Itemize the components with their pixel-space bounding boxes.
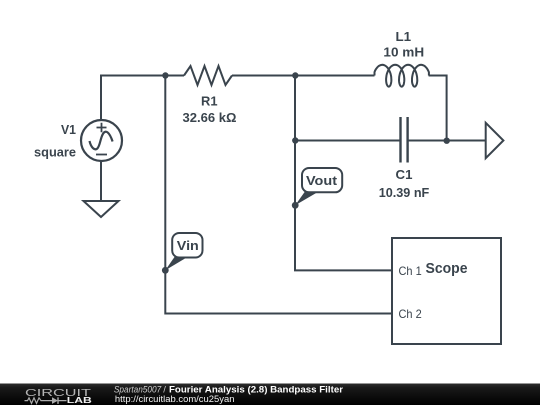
V1 sine wave <box>90 132 113 150</box>
node junction at C1 left <box>292 137 298 143</box>
scope box <box>392 238 501 344</box>
svg-text:Scope: Scope <box>426 260 468 277</box>
svg-text:10 mH: 10 mH <box>383 45 424 60</box>
svg-text:LAB: LAB <box>67 396 92 405</box>
wire C1 left lead <box>295 140 400 142</box>
svg-text:Ch 2: Ch 2 <box>399 307 422 321</box>
node junction at Vout branch top <box>292 72 298 78</box>
svg-text:Vout: Vout <box>306 173 338 188</box>
wire L1 to corner down to C1 right node <box>429 76 447 141</box>
flag Vout box <box>302 168 342 192</box>
svg-text:http://circuitlab.com/cu25yan: http://circuitlab.com/cu25yan <box>115 394 235 405</box>
wire Vin vertical and Ch2 horizontal <box>165 76 392 314</box>
ground <box>84 201 119 217</box>
node Vout attachment dot <box>292 202 299 209</box>
logo resistor-diode glyph <box>25 398 67 404</box>
flag Vout pointer <box>295 191 320 206</box>
svg-text:Ch 1: Ch 1 <box>399 264 422 278</box>
voltage source V1 <box>81 120 122 161</box>
svg-text:R1: R1 <box>201 94 218 109</box>
wire V1 top to R1 <box>101 76 184 121</box>
node junction at R1 left <box>162 72 168 78</box>
resistor R1 <box>184 66 232 85</box>
wire R1 to L1 <box>232 75 375 77</box>
flag Vin pointer <box>165 256 190 271</box>
svg-text:L1: L1 <box>396 29 412 44</box>
footer bar <box>0 384 540 405</box>
V1 plus sign <box>97 123 107 132</box>
svg-text:10.39 nF: 10.39 nF <box>379 185 430 200</box>
flag Vin box <box>172 233 202 258</box>
output port arrow <box>486 123 504 158</box>
wire Vout vertical and Ch1 horizontal <box>295 76 392 271</box>
node junction at C1 right <box>444 138 450 144</box>
svg-text:32.66 kΩ: 32.66 kΩ <box>183 110 237 125</box>
V1 minus sign <box>96 154 107 156</box>
wire V1 bottom to ground <box>100 161 102 201</box>
svg-text:Vin: Vin <box>177 238 199 253</box>
capacitor C1 <box>401 117 408 163</box>
wire C1 right lead to output <box>408 140 485 142</box>
svg-text:C1: C1 <box>396 167 413 182</box>
logo diode triangle <box>52 397 58 404</box>
svg-text:V1: V1 <box>61 122 76 137</box>
node Vin attachment dot <box>162 267 169 274</box>
svg-text:square: square <box>34 145 76 160</box>
inductor L1 <box>375 65 429 87</box>
